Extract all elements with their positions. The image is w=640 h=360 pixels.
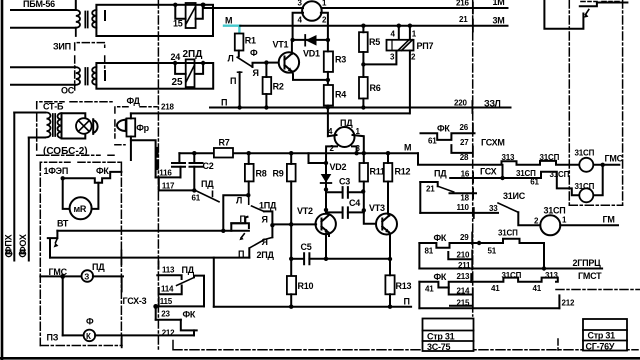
node VT1 base [264,60,268,64]
svg-text:ФК: ФК [437,124,450,134]
1ПД Л stub [248,195,250,204]
svg-text:РП7: РП7 [417,41,434,51]
svg-text:2ГПРЦ: 2ГПРЦ [573,258,602,268]
VT3 emitter down [388,233,391,260]
СТ-Б transformer primary winding [47,113,51,138]
riser 119 to Y1 [213,258,215,307]
tick 216/1М [472,3,474,14]
diode VD2 [321,174,332,183]
relay 15 left loop [175,5,185,19]
node R12 on М line [386,151,390,155]
T1 secondary box [96,5,213,36]
boundary dash-dot y205 (ГМС module bottom) [569,204,622,206]
wire 218 line B [131,112,410,114]
svg-text:23: 23 [161,309,170,318]
contactor К circle [84,330,96,342]
VT3 collector [388,214,389,216]
contactor З circle [82,270,94,282]
svg-text:R7: R7 [219,138,230,148]
transformer T1 primary winding [76,10,80,36]
resistor R3 [324,51,333,72]
1ПД arm [252,206,265,211]
node Я common [270,223,274,227]
boundary dash-dot bottom long line y349.7 [173,341,638,350]
svg-text:2ПД: 2ПД [183,49,203,60]
transformer T1 core [85,12,87,28]
wire З to boundary [93,275,123,277]
1ПД П wire [231,217,247,231]
wire М line [179,152,418,154]
tick 213 [470,274,472,282]
lamp 31СП row Q [579,188,593,202]
2ПД Я link [265,237,273,239]
stub 215 [450,305,472,307]
svg-text:3С-75: 3С-75 [427,342,451,352]
svg-text:115: 115 [160,297,173,306]
svg-text:1М: 1М [493,0,505,7]
node C2b top [192,151,196,155]
svg-text:VT1: VT1 [273,40,289,50]
ПД box left edge [419,182,421,213]
wire VD1 row [293,39,328,41]
node R10 bottom [289,305,293,309]
svg-text:ВТ: ВТ [57,219,69,229]
node VT3 emitter R13 [388,257,392,261]
ПД2 pin2 wire [326,146,337,163]
frame left border [1,0,4,360]
boundary dash-dot vertical x569 (ГМС module left) [568,0,570,205]
svg-text:C2: C2 [203,161,214,171]
node 115 junction [153,304,158,309]
svg-text:СГ-76У: СГ-76У [586,342,615,352]
ПД2 pin1 wire [353,135,364,153]
svg-text:Л: Л [228,54,234,64]
СТ-Б transformer core [53,114,55,136]
R2 stubs [265,63,267,108]
ВТ switch arm with arrow [55,239,57,243]
node R13 bottom [388,305,392,309]
R9-column vertical [290,223,292,276]
svg-text:R9: R9 [273,169,284,179]
svg-text:213: 213 [457,272,470,281]
wire C5 left [291,258,303,260]
node bus R2 [264,105,268,109]
svg-text:R11: R11 [370,167,386,177]
wire T2 primary top [11,66,75,68]
wire VT2 base [272,223,316,225]
svg-text:117: 117 [162,182,175,191]
C2b risers [193,153,195,190]
resistor R10 [287,276,296,294]
wire 117 [159,189,194,191]
machine pin3 wire left [301,7,304,9]
node 118 / riser [221,229,225,233]
svg-text:113: 113 [162,266,175,275]
resistor R6 [359,77,368,99]
РП7 pin1 wire [409,26,411,40]
tick on 119 at boundary [120,250,122,264]
node VD1 left [290,38,294,42]
boundary dash-dot vertical x622.6 (ГМС module right) [622,0,624,205]
tick 215 [472,298,474,307]
transformer T1 secondary winding [92,10,96,28]
СТ-Б dashed box [37,102,114,156]
svg-text:П: П [230,76,236,86]
relay 2ПД right loop [196,63,204,74]
svg-text:220: 220 [454,99,467,108]
node pin1/R11 on М line [362,151,366,155]
wire C3 left [326,191,342,193]
СТ-Б transformer secondary winding [58,113,62,138]
РП7 slash [398,40,413,51]
node on T1 box top right [201,3,205,7]
wire 23 row [156,319,181,321]
boundary dash-dot vertical x40 (1ФЭП / ПЗ module left edge) [39,162,41,345]
svg-text:Стр 31: Стр 31 [588,331,616,341]
svg-text:21: 21 [459,15,468,24]
node pin3 on М line [354,151,358,155]
svg-text:R13: R13 [396,281,412,291]
wire T1 primary top [11,9,76,11]
R4 bottom stub [327,106,329,108]
capacitor C3 [343,187,348,198]
riser К wire to 212 bracket [193,330,195,335]
svg-text:R12: R12 [395,167,411,177]
transformer T2 primary winding [76,67,80,85]
ПД-16 arm [438,186,454,192]
svg-text:ПЗ: ПЗ [47,333,59,343]
svg-text:33: 33 [489,204,498,213]
wire VT1 base [266,62,279,64]
boundary dash-dot vertical x158.4 (СОБС module right edge) [157,0,159,352]
wire 212 riser [558,295,560,308]
svg-text:П: П [221,98,227,108]
motor мR circle [70,197,92,219]
wire Я to VT1 base node [253,63,267,67]
transistor VT1 [279,52,299,72]
wire row Q [450,165,603,196]
svg-text:Стр 31: Стр 31 [427,332,455,342]
ПД-16 box top [420,182,437,186]
2ПД open arm arrow [241,234,244,238]
transistor VT3 [376,214,397,235]
machine circle ПД1 [302,1,322,21]
wire to ФОХ vertical [29,137,45,139]
relay 2ПД left loop [175,63,186,74]
svg-text:18: 18 [460,193,469,202]
node bus П-switch [237,105,241,109]
svg-text:ГСХ: ГСХ [480,167,497,177]
stub 214 [449,288,472,295]
svg-text:R1: R1 [245,36,256,46]
svg-text:29: 29 [460,233,469,242]
node мR left [61,176,65,180]
terminal symbol ⊖ right [20,251,26,257]
svg-text:мR: мR [74,204,87,214]
resistor R7 [214,148,233,158]
node C4 right [362,208,366,212]
node Л 1ПД [246,193,250,197]
wire ФПХ vertical [13,113,15,261]
wire C3 right [348,191,363,193]
resistor R4 [324,85,333,106]
node VD2 anode [324,161,328,165]
wire 116 [156,176,181,178]
resistor R9 [287,164,296,182]
R6 stubs [362,64,364,107]
wire C4 left [326,211,342,213]
machine pin4 loop [293,13,303,40]
node R8 top [247,151,251,155]
wire to 31СП machine [518,212,540,225]
node 117/C2b [192,188,196,192]
wire К row left [63,334,84,336]
svg-text:110: 110 [457,203,470,212]
ФК 23-212 step [181,320,197,331]
node emitter R3 R4 [326,78,330,82]
svg-text:ОС: ОС [61,86,75,96]
R5 stubs [362,26,364,65]
ВТ switch upper stub [48,231,58,238]
tick 115 [158,298,160,306]
wire 116-117 link [158,177,160,190]
tick 28 [472,147,474,157]
wire 114 bracket [159,286,182,295]
diode VD1 [306,35,317,46]
svg-text:З: З [84,273,89,282]
T1 primary top stub [75,0,77,10]
resistor R11 [360,163,369,182]
terminal symbol ⊖ left [6,251,12,257]
VT1 emitter wire [292,72,328,80]
tick 210 [471,251,473,259]
svg-text:Л: Л [236,196,242,206]
tick 21/3М [472,20,474,32]
table right box [583,319,627,351]
svg-text:М: М [225,16,232,26]
svg-text:ЗЗЛ: ЗЗЛ [484,99,501,109]
pin tick 117 on box edge [156,160,158,169]
svg-text:ПД: ПД [92,262,105,272]
svg-text:61: 61 [428,137,437,146]
wire 113 [157,275,181,279]
stub 210 [448,252,471,259]
relay 2ПД node right [201,61,205,65]
C2a bottom riser [180,167,182,178]
РП7 relay box [387,40,414,51]
tick 110 [473,208,475,218]
lamp 31СП row P [579,158,593,172]
contact 61 arm [197,191,220,202]
relay 2ПД coil slash [186,66,194,83]
node R5-R6 junction [361,62,365,66]
ПД contact fixed bracket [194,276,204,307]
svg-text:114: 114 [161,284,174,293]
svg-text:Ф: Ф [86,317,94,327]
wire 28 branch [451,145,471,153]
table left box [423,319,474,352]
Фр resistor box [127,118,136,136]
wire T1 primary bottom [11,27,76,29]
box3 left edge [418,282,420,308]
relay 15 node right [201,3,205,7]
svg-text:ФД: ФД [127,96,141,106]
wire 118 long [57,230,249,232]
2ПД П stub to 119 [248,248,250,257]
resistor R8 [245,164,254,182]
wire 110 [420,212,498,214]
VT2 emitter down [326,233,329,259]
svg-text:ПД: ПД [182,265,195,275]
wire мR right riser to ФК contact [92,183,99,209]
capacitor C2a [172,163,185,167]
wire Фр top to 218 line [130,113,132,118]
wire ФК row [63,172,122,183]
stub below К wire [121,335,123,347]
svg-text:VD1: VD1 [303,49,320,59]
tick 18 [472,189,474,199]
resistor R5 [359,32,368,52]
svg-text:ЗИП: ЗИП [53,42,71,52]
wire Y1 left segment [156,305,204,307]
node ГМС right [601,163,605,167]
machine circle ПД2 [335,127,355,147]
pin tick 116 on box edge [156,148,158,157]
photodiode D shape [93,119,97,134]
wire 213 row [419,278,557,288]
svg-text:ГСХМ: ГСХМ [481,138,505,148]
svg-text:31СП: 31СП [544,206,566,216]
svg-text:ФК: ФК [434,272,447,282]
machine 31СП circle [540,215,560,235]
top-right corner block L-path [544,0,583,29]
svg-text:К: К [86,332,91,341]
svg-text:R8: R8 [256,169,267,179]
wire 119 long [50,257,249,259]
wire Я common to VT2 base column [271,225,273,237]
node R5 top on M bus [361,24,365,28]
R13 stubs [389,259,391,307]
node bus R4 [326,105,330,109]
contact 61 fixed tick [212,191,214,196]
svg-text:Ф: Ф [250,48,258,58]
R3 stubs [327,40,329,85]
tick 29 [471,233,473,245]
frame bottom border [0,357,640,360]
wire VT3 base [364,210,376,224]
wire Y1 right bus [214,306,411,308]
svg-text:41: 41 [425,284,434,293]
svg-text:R4: R4 [335,90,346,100]
capacitor C5 [304,253,309,264]
svg-text:210: 210 [457,250,470,259]
wire Y2 bus [419,307,559,309]
wire ГМС row [40,275,82,277]
resistor R13 [385,275,394,294]
svg-text:31СП: 31СП [498,229,518,238]
capacitor C4 [343,207,348,218]
svg-text:П: П [404,297,410,307]
VD2 vertical [325,163,327,215]
svg-text:1ФЭП: 1ФЭП [44,166,69,176]
ПД2 pin4 wire [328,108,337,137]
svg-text:15: 15 [173,19,183,29]
svg-text:41: 41 [533,284,542,293]
node 29/51 [477,241,481,245]
stub row P to row Q [502,165,504,178]
2ПД arm П-Я [250,240,265,248]
1ПД Я wire [264,211,272,225]
boundary dash-dot y289.5 (ГМСТ module) [556,289,640,291]
svg-text:31СП: 31СП [575,149,595,158]
svg-text:313: 313 [545,271,558,280]
svg-text:C5: C5 [301,242,312,252]
svg-text:ГМСТ: ГМСТ [578,271,602,281]
wire 26 row with ФК jog [421,133,475,140]
Фр photoresistor lens [117,119,126,131]
boundary dash-dot vertical x121 (1ФЭП module right edge) [120,162,122,344]
node ГМС [60,274,65,279]
wire 216/1М line [322,7,508,9]
resistor R12 [384,163,393,182]
resistor R2 [263,77,272,94]
node R9 top [289,151,293,155]
tick 220 [471,101,473,113]
2ПД Л wire [231,223,249,228]
svg-text:П: П [238,249,244,259]
U-jog М line to VD2 node [309,153,327,163]
T2 box inner tap mark [104,71,106,80]
R10 bottom stub [290,294,292,306]
tick below З wire [121,278,123,292]
svg-text:Фр: Фр [136,123,149,133]
transistor VT2 [316,214,336,234]
svg-text:ФК: ФК [183,310,196,320]
node C4 left [324,208,328,212]
wire К row right [95,334,194,336]
svg-text:R6: R6 [370,83,381,93]
top-right clipped text marks [581,1,619,3]
boundary dash-dot bits near right table [557,339,559,351]
wire П bus (line A) [210,107,511,109]
svg-text:М: М [404,143,411,153]
svg-text:2ПД: 2ПД [257,250,275,260]
top-right switch wires [580,3,628,7]
machine pin2 loop [321,13,328,40]
wire T2 primary bottom [11,84,75,86]
node row Q [500,176,504,180]
T2 secondary box [96,63,213,89]
ФД dashed box [115,107,157,145]
svg-text:24: 24 [171,52,181,62]
svg-text:VT3: VT3 [369,203,385,213]
node VD1 right [326,38,330,42]
node РП7 pin4 top [397,24,401,28]
svg-text:(СОБС-2): (СОБС-2) [43,146,88,157]
wire 61 to 1ПД riser [223,195,248,231]
ПД contact arm 113-114 [177,278,194,286]
node bus R6 [361,105,365,109]
wire мR left drop [63,178,70,209]
1ФЭП dashed box top [40,162,121,168]
wire R5R6 to РП7 pin3 [363,51,396,65]
node 211/29 [542,266,546,270]
РП7 pin4 wire [398,26,400,40]
tick 214 [472,289,474,297]
wire M highlight cyan [224,26,240,34]
svg-text:VT2: VT2 [297,206,313,216]
СТ-Б secondary loop box [62,113,86,138]
